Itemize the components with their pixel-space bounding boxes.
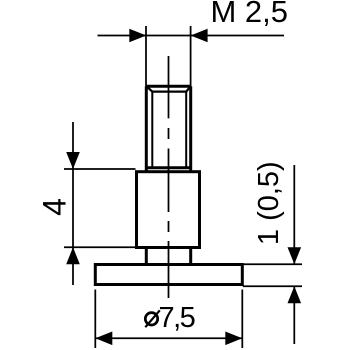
centerline [168, 56, 170, 298]
dimension 1 (0,5) lines [293, 165, 295, 344]
dimension M 2,5 extension lines [146, 26, 191, 86]
label ø7,5 diameter symbol [145, 313, 157, 325]
dimension ø7,5 left arrow [95, 332, 112, 346]
svg-text:1 (0,5): 1 (0,5) [253, 161, 285, 245]
thread chamfer [146, 86, 190, 91]
dimension M 2,5 lines [98, 35, 285, 37]
dimension 1 (0,5) top arrow [288, 247, 302, 264]
dimension M 2,5 right arrow [191, 29, 208, 43]
svg-text:4: 4 [37, 198, 73, 216]
dimension 4 lines [72, 122, 74, 285]
dimension ø7,5 right arrow [225, 332, 242, 346]
dimension 1 (0,5) bottom arrow [288, 286, 302, 303]
svg-text:7,5: 7,5 [159, 302, 195, 334]
dimension 4 extension lines [64, 169, 136, 247]
dimension M 2,5 left arrow [129, 29, 146, 43]
dimension 4 top arrow [66, 152, 80, 169]
dimension ø7,5 extension lines [95, 290, 242, 349]
dimension 4 bottom arrow [66, 247, 80, 264]
dimension ø7,5 line [95, 337, 242, 339]
flange disc [95, 265, 242, 285]
thread root lines [152, 92, 186, 168]
threaded stud M2.5 outline [146, 86, 190, 171]
neck [146, 248, 190, 265]
body cylinder [137, 172, 200, 248]
svg-text:M 2,5: M 2,5 [211, 0, 289, 29]
dimension 1 (0,5) extension lines [243, 264, 302, 286]
